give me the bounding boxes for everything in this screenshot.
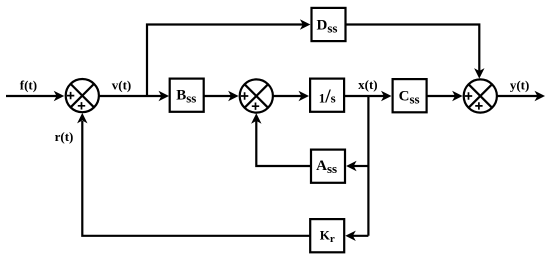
svg-text:1/s: 1/s [319, 87, 336, 108]
svg-text:Bss: Bss [176, 87, 196, 105]
svg-text:Css: Css [399, 88, 420, 106]
svg-text:Kr: Kr [320, 228, 335, 246]
svg-text:Ass: Ass [316, 158, 337, 176]
svg-text:v(t): v(t) [112, 78, 132, 93]
svg-text:r(t): r(t) [55, 129, 74, 144]
svg-text:f(t): f(t) [20, 78, 37, 93]
svg-text:x(t): x(t) [358, 77, 378, 92]
svg-text:y(t): y(t) [510, 78, 530, 93]
svg-text:Dss: Dss [317, 17, 338, 35]
